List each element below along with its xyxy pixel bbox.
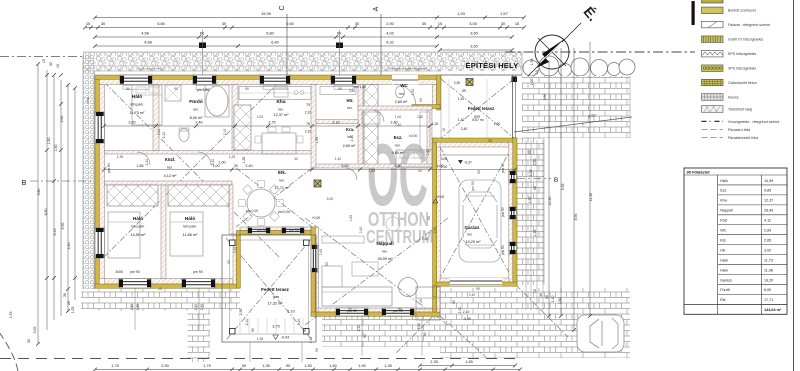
- exterior wall garage-west: [433, 138, 437, 312]
- svg-text:15: 15: [438, 21, 442, 26]
- roof diagonal over dining: [236, 168, 312, 227]
- svg-text:Kavics: Kavics: [728, 95, 739, 99]
- svg-text:pm 90: pm 90: [501, 245, 505, 255]
- svg-text:144,64 m²: 144,64 m²: [764, 308, 782, 312]
- svg-text:3,75: 3,75: [268, 121, 275, 125]
- interior doors: [116, 110, 384, 198]
- svg-text:2,10: 2,10: [162, 132, 166, 139]
- wall hatch north: [95, 79, 441, 84]
- window sills north: [123, 85, 149, 89]
- svg-text:Háló: Háló: [720, 179, 728, 183]
- svg-text:Kst.: Kst.: [720, 238, 726, 242]
- svg-text:15: 15: [533, 289, 537, 293]
- svg-text:2,90: 2,90: [161, 363, 169, 368]
- terrace deck lines: [240, 318, 303, 334]
- coffee table: [352, 262, 378, 276]
- svg-text:pm 1,80: pm 1,80: [197, 88, 209, 92]
- svg-text:19,20 m²: 19,20 m²: [466, 240, 482, 244]
- svg-text:2,40: 2,40: [359, 227, 363, 234]
- svg-text:5,80: 5,80: [266, 31, 274, 36]
- roof diagonal over south terrace 2: [226, 238, 312, 340]
- svg-text:WC: WC: [720, 229, 726, 233]
- plot edge in front of north terrace: [441, 74, 522, 76]
- pantry shelves: [320, 87, 356, 95]
- svg-text:1,00: 1,00: [395, 115, 402, 119]
- svg-text:1,90: 1,90: [528, 197, 532, 204]
- exterior wall garage-east: [513, 138, 517, 286]
- svg-text:Háló: Háló: [133, 216, 143, 222]
- svg-text:1,50: 1,50: [558, 298, 562, 305]
- svg-text:28,99: 28,99: [764, 209, 773, 213]
- svg-text:8,00 m²: 8,00 m²: [190, 116, 204, 120]
- svg-text:Háló: Háló: [185, 216, 195, 222]
- svg-text:Kra.: Kra.: [346, 127, 354, 132]
- svg-text:14,59 m²: 14,59 m²: [131, 233, 147, 237]
- svg-text:2,30: 2,30: [454, 81, 461, 85]
- svg-text:4,12 m²: 4,12 m²: [164, 174, 178, 178]
- svg-text:15: 15: [158, 287, 162, 291]
- tv board: [322, 236, 364, 243]
- svg-text:Páraáteresztő fólia: Páraáteresztő fólia: [728, 136, 758, 140]
- svg-text:2,10: 2,10: [157, 129, 161, 136]
- svg-text:Fürdő: Fürdő: [720, 288, 730, 292]
- svg-text:Háló: Háló: [720, 258, 728, 262]
- svg-text:1,35: 1,35: [242, 157, 246, 164]
- svg-text:Háló: Háló: [720, 268, 728, 272]
- axis marker square 2: [336, 43, 343, 49]
- svg-text:2,10: 2,10: [441, 165, 448, 169]
- svg-text:2,40: 2,40: [461, 127, 468, 131]
- svg-text:6,67 m²: 6,67 m²: [472, 118, 484, 122]
- section line A: [380, 14, 382, 75]
- roof diagonal over west wing: [104, 82, 279, 257]
- property line curve SW corner: [0, 332, 18, 371]
- svg-text:1,35: 1,35: [384, 363, 392, 368]
- wall hatch dining-south: [240, 227, 311, 231]
- svg-text:6,40: 6,40: [271, 40, 279, 45]
- svg-text:Fedett terasz: Fedett terasz: [261, 287, 290, 292]
- svg-text:15: 15: [515, 21, 519, 26]
- svg-text:17,32 m²: 17,32 m²: [268, 302, 284, 306]
- legend bontott: [702, 7, 724, 14]
- window living 336: [336, 308, 368, 316]
- chimney shaft: [234, 105, 251, 150]
- svg-text:Háló: Háló: [132, 94, 142, 100]
- svg-text:2,10: 2,10: [287, 310, 294, 314]
- svg-text:5,60: 5,60: [286, 21, 294, 26]
- svg-text:6,15: 6,15: [53, 229, 57, 236]
- svg-text:B: B: [21, 178, 26, 187]
- svg-text:2,40: 2,40: [469, 293, 476, 297]
- svg-text:2,10: 2,10: [419, 299, 423, 306]
- svg-text:90: 90: [251, 328, 255, 332]
- svg-text:2,10: 2,10: [145, 159, 149, 166]
- svg-text:2,65 m²: 2,65 m²: [343, 144, 356, 148]
- svg-text:Grafit XT hőszigetelés: Grafit XT hőszigetelés: [728, 38, 763, 42]
- wardrobe band bedroom S-middle: [168, 185, 229, 206]
- section line C: [286, 14, 288, 75]
- svg-text:15: 15: [535, 70, 539, 74]
- svg-text:1,50: 1,50: [136, 304, 140, 311]
- svg-text:2,40: 2,40: [433, 227, 437, 234]
- svg-text:lam park.: lam park.: [131, 225, 145, 229]
- svg-text:75: 75: [306, 122, 310, 126]
- svg-text:XPS hőszigetelés: XPS hőszigetelés: [728, 67, 756, 71]
- svg-text:5,80: 5,80: [157, 21, 165, 26]
- roof diagonal over dining 2: [236, 168, 312, 227]
- svg-text:1,85: 1,85: [136, 164, 143, 168]
- svg-text:ker.: ker.: [279, 179, 284, 183]
- exterior wall garage-south: [436, 282, 517, 286]
- svg-text:Htr.: Htr.: [720, 248, 726, 252]
- svg-text:11,73: 11,73: [764, 258, 773, 262]
- axis line 2: [339, 30, 341, 75]
- svg-text:2,10: 2,10: [332, 121, 339, 125]
- svg-text:2,40: 2,40: [195, 121, 202, 125]
- svg-text:30: 30: [27, 339, 31, 343]
- svg-text:Garázs: Garázs: [720, 278, 732, 282]
- svg-text:90: 90: [245, 87, 249, 91]
- interior walls: [105, 85, 433, 279]
- dimension chain bottom main: [95, 369, 520, 371]
- svg-text:drótfonatos kerítés: drótfonatos kerítés: [138, 67, 163, 71]
- svg-text:4,58: 4,58: [141, 31, 149, 36]
- svg-text:Fedett terasz: Fedett terasz: [468, 106, 495, 111]
- svg-text:gres: gres: [273, 295, 280, 299]
- svg-text:1,50: 1,50: [533, 159, 537, 166]
- kitchen counter east: [396, 150, 432, 167]
- column north terrace: [512, 77, 518, 83]
- legend talaj: [702, 106, 724, 113]
- svg-text:Esz.: Esz.: [394, 135, 403, 140]
- svg-text:2,10: 2,10: [245, 319, 249, 326]
- shower bathroom: [165, 85, 181, 101]
- svg-text:WC: WC: [400, 83, 408, 88]
- svg-text:4,88: 4,88: [144, 40, 152, 45]
- svg-text:1,40: 1,40: [335, 157, 342, 161]
- level marker -0,04: [273, 335, 278, 339]
- svg-text:gres: gres: [474, 115, 481, 119]
- svg-text:30: 30: [294, 157, 298, 161]
- svg-text:1,50: 1,50: [47, 138, 51, 145]
- svg-text:Csömöszölt beton: Csömöszölt beton: [728, 81, 757, 85]
- gravel strip west plot boundary: [83, 55, 95, 311]
- shrub circles along NE boundary: [523, 60, 539, 76]
- svg-text:2,90: 2,90: [386, 21, 394, 26]
- svg-text:pm 90: pm 90: [289, 228, 299, 232]
- roof diagonal over garage 2: [440, 147, 512, 278]
- svg-text:Nappali: Nappali: [720, 209, 733, 213]
- svg-text:-0,40: -0,40: [463, 317, 471, 321]
- svg-text:ker.: ker.: [399, 92, 404, 96]
- wall hatch west: [99, 85, 104, 279]
- svg-text:90: 90: [398, 307, 402, 311]
- roof diagonal over north terrace: [441, 79, 514, 138]
- svg-text:90: 90: [418, 169, 422, 173]
- svg-text:1,06: 1,06: [530, 79, 534, 86]
- legend partial top swatch: [702, 0, 724, 3]
- window north 193: [193, 75, 216, 85]
- svg-text:ker.: ker.: [278, 108, 283, 112]
- dimension chains left: [37, 64, 39, 344]
- svg-text:ker.: ker.: [347, 135, 352, 139]
- svg-text:2,89: 2,89: [764, 229, 771, 233]
- svg-text:Kha: Kha: [276, 99, 285, 105]
- legend eps: [702, 50, 724, 57]
- svg-text:30: 30: [234, 164, 238, 168]
- svg-text:1,80: 1,80: [349, 215, 353, 222]
- dimension chain top 3: [95, 36, 512, 38]
- svg-text:5,00: 5,00: [327, 197, 334, 201]
- sofa living room: [322, 287, 392, 306]
- exterior wall wc-south: [412, 105, 440, 109]
- svg-text:2,90: 2,90: [543, 94, 547, 101]
- dimension chains right: [548, 60, 550, 316]
- svg-text:11,35: 11,35: [589, 193, 593, 202]
- svg-text:ker.: ker.: [395, 144, 400, 148]
- exterior wall porch stub: [433, 286, 437, 297]
- exterior wall step-wall: [236, 231, 240, 289]
- roof diagonal over south terrace: [226, 238, 312, 340]
- svg-text:1,30: 1,30: [458, 118, 465, 122]
- svg-text:26,99 m²: 26,99 m²: [378, 257, 394, 261]
- svg-text:12,37: 12,37: [764, 199, 773, 203]
- exterior wall living-west: [311, 227, 315, 316]
- svg-text:2,89 m²: 2,89 m²: [395, 100, 408, 104]
- wall hatch south-bedrooms: [105, 279, 234, 285]
- svg-text:9,80: 9,80: [37, 189, 41, 196]
- svg-text:ker.: ker.: [467, 233, 472, 237]
- svg-text:1,20: 1,20: [458, 97, 465, 101]
- wc toilet: [396, 86, 405, 98]
- svg-text:Étk.: Étk.: [720, 297, 726, 302]
- svg-text:Párazáró fólia: Párazáró fólia: [728, 128, 750, 132]
- dimension chain top 4: [95, 45, 437, 47]
- svg-text:1,35: 1,35: [262, 363, 270, 368]
- legend parazaro: [702, 128, 724, 130]
- legend vizszigeteles: [702, 120, 711, 122]
- exterior wall garage-north: [433, 138, 517, 142]
- svg-text:1,50: 1,50: [130, 304, 134, 311]
- level marker -0,37: [458, 160, 463, 164]
- svg-text:pm 90: pm 90: [501, 207, 505, 217]
- svg-text:1,50: 1,50: [194, 304, 198, 311]
- svg-text:4,02: 4,02: [386, 31, 394, 36]
- dimension chain top 4 right: [440, 49, 512, 51]
- compass rose: [528, 23, 581, 76]
- svg-text:3,02: 3,02: [764, 248, 771, 252]
- wall hatch wc-east: [433, 85, 437, 106]
- svg-text:8,00: 8,00: [764, 288, 771, 292]
- svg-text:1,50: 1,50: [54, 145, 58, 152]
- exterior wall living-south: [311, 312, 440, 316]
- exterior wall west: [95, 79, 99, 288]
- legend kavics: [702, 94, 724, 101]
- gravel band along north plot boundary: [83, 52, 522, 71]
- svg-text:Bontott szerkezet: Bontott szerkezet: [728, 9, 756, 13]
- svg-text:1,50: 1,50: [304, 363, 312, 368]
- svg-text:1,00: 1,00: [257, 115, 264, 119]
- svg-text:B: B: [554, 177, 558, 184]
- svg-text:Htr.: Htr.: [347, 98, 354, 103]
- svg-text:90: 90: [427, 216, 431, 220]
- dimension chain top 1: [95, 17, 524, 19]
- svg-text:11,98: 11,98: [764, 268, 773, 272]
- svg-text:90: 90: [227, 260, 231, 264]
- svg-text:Fürdő: Fürdő: [189, 99, 203, 105]
- svg-text:1,33: 1,33: [530, 59, 534, 66]
- svg-text:±0,00: ±0,00: [409, 134, 418, 138]
- svg-text:12,37 m²: 12,37 m²: [274, 113, 290, 117]
- svg-text:60: 60: [528, 150, 532, 154]
- svg-text:Falazat - rétegrend szerint: Falazat - rétegrend szerint: [728, 23, 770, 27]
- column marker pillar2: [314, 180, 321, 187]
- roof diagonal over garage: [440, 147, 512, 278]
- axis marker square 1: [199, 43, 206, 49]
- svg-text:2,10: 2,10: [417, 323, 421, 330]
- svg-text:90: 90: [315, 348, 319, 352]
- svg-text:1,20: 1,20: [411, 89, 415, 96]
- bed bedroom NW: [132, 85, 162, 125]
- garage door opening: [450, 278, 502, 286]
- svg-text:Közl.: Közl.: [165, 157, 176, 162]
- roof diagonal over living room: [305, 218, 448, 325]
- paved brick area NE: [522, 76, 630, 138]
- black bar top: [692, 1, 695, 25]
- svg-text:3,50: 3,50: [470, 44, 478, 49]
- svg-text:+0,00: +0,00: [436, 195, 445, 199]
- svg-text:3,05: 3,05: [469, 21, 477, 26]
- window garage 207: [509, 207, 517, 219]
- watermark OC Otthon Centrum logo: [366, 125, 433, 247]
- svg-text:pm 90: pm 90: [130, 270, 140, 274]
- svg-text:17,71: 17,71: [764, 298, 773, 302]
- svg-text:90: 90: [126, 87, 130, 91]
- svg-text:1,05: 1,05: [71, 307, 75, 314]
- terrace posts: [230, 240, 236, 246]
- dimension chain bottom garage: [420, 365, 515, 367]
- svg-text:2,10: 2,10: [426, 149, 430, 156]
- svg-text:14,99: 14,99: [764, 179, 773, 183]
- svg-text:69: 69: [462, 89, 466, 93]
- svg-text:90: 90: [423, 332, 427, 336]
- entry door north: [392, 75, 418, 85]
- svg-text:90: 90: [477, 170, 481, 174]
- svg-text:2,80: 2,80: [349, 89, 356, 93]
- legend falazat: [702, 21, 724, 28]
- porch steps SE: [416, 287, 440, 320]
- svg-text:2,10: 2,10: [305, 111, 312, 115]
- frame line right: [793, 0, 795, 371]
- svg-text:30: 30: [488, 139, 492, 143]
- exterior wall dining-south: [240, 231, 311, 235]
- svg-text:5,82: 5,82: [341, 164, 348, 168]
- svg-text:1,60: 1,60: [329, 363, 337, 368]
- svg-text:2,40: 2,40: [245, 164, 252, 168]
- svg-text:2,10: 2,10: [309, 337, 313, 344]
- svg-text:90: 90: [348, 307, 352, 311]
- svg-text:35: 35: [539, 293, 543, 297]
- svg-text:90 Földszint: 90 Földszint: [687, 169, 711, 174]
- wall hatch garage-south: [440, 278, 509, 282]
- svg-text:3x05: 3x05: [115, 270, 122, 274]
- svg-text:Közl: Közl: [720, 219, 727, 223]
- south covered terrace slab: [222, 235, 316, 342]
- property line north-west (dash-dot): [0, 56, 83, 58]
- svg-text:1,25: 1,25: [229, 155, 236, 159]
- svg-text:6,90: 6,90: [61, 223, 65, 230]
- north terrace floor edge: [512, 75, 514, 138]
- svg-text:-0,04: -0,04: [281, 336, 289, 340]
- interior dimension chain B: [104, 169, 515, 171]
- svg-text:19,20: 19,20: [764, 278, 773, 282]
- svg-text:8,80: 8,80: [44, 209, 48, 216]
- svg-text:pm 90: pm 90: [501, 163, 505, 173]
- window north 120: [120, 75, 152, 85]
- svg-text:3,05: 3,05: [33, 327, 37, 334]
- svg-text:16: 16: [56, 64, 60, 68]
- brick walkway to south: [188, 311, 211, 362]
- window south 119: [119, 279, 151, 289]
- svg-text:10,45: 10,45: [548, 197, 552, 206]
- svg-text:9,85: 9,85: [764, 189, 771, 193]
- svg-text:1,75: 1,75: [111, 363, 119, 368]
- svg-text:ker.: ker.: [382, 250, 387, 254]
- svg-text:1,79: 1,79: [203, 363, 211, 368]
- svg-text:2,40: 2,40: [395, 123, 402, 127]
- svg-text:+0,00: +0,00: [312, 216, 321, 220]
- dining round table: [247, 189, 275, 217]
- svg-text:1,50: 1,50: [358, 363, 366, 368]
- svg-text:8,90: 8,90: [574, 214, 578, 221]
- svg-text:2,10: 2,10: [458, 307, 462, 314]
- svg-text:1,57: 1,57: [500, 11, 509, 16]
- svg-text:1,20: 1,20: [432, 122, 439, 126]
- svg-text:90: 90: [452, 300, 456, 304]
- svg-text:2,40: 2,40: [319, 249, 323, 256]
- svg-text:pm 0,00: pm 0,00: [278, 210, 290, 214]
- svg-text:2,80: 2,80: [394, 164, 401, 168]
- svg-text:pm 90: pm 90: [193, 270, 203, 274]
- wall hatch garage-north: [440, 142, 509, 147]
- roof diagonal over living room 2: [305, 218, 448, 325]
- wall hatch living-south: [318, 308, 433, 312]
- window north 260: [260, 75, 290, 85]
- hip line S: [396, 316, 433, 353]
- window garage 171: [509, 171, 517, 183]
- svg-text:pm 1,80: pm 1,80: [354, 85, 366, 89]
- legend xps: [702, 65, 724, 72]
- column marker pillar1: [466, 79, 473, 86]
- svg-text:15: 15: [86, 21, 90, 26]
- property line south (long dashes): [0, 358, 520, 360]
- kitchen counter: [239, 87, 311, 100]
- svg-text:1,10: 1,10: [551, 296, 555, 303]
- svg-text:1,35: 1,35: [533, 230, 537, 237]
- window dining 248: [248, 227, 270, 234]
- svg-text:3,50: 3,50: [470, 31, 478, 36]
- svg-text:fémkerítés szilárd lábazattal: fémkerítés szilárd lábazattal: [389, 67, 427, 71]
- svg-text:2,10: 2,10: [463, 310, 470, 314]
- window west wall 1: [95, 112, 105, 143]
- svg-text:átm.park.: átm.park.: [130, 103, 144, 107]
- svg-text:3,75: 3,75: [272, 325, 279, 329]
- svg-text:2,10: 2,10: [211, 159, 215, 166]
- svg-text:15: 15: [42, 59, 46, 63]
- svg-text:2,35: 2,35: [430, 359, 438, 364]
- svg-text:30: 30: [545, 295, 549, 299]
- svg-text:2,40: 2,40: [422, 237, 429, 241]
